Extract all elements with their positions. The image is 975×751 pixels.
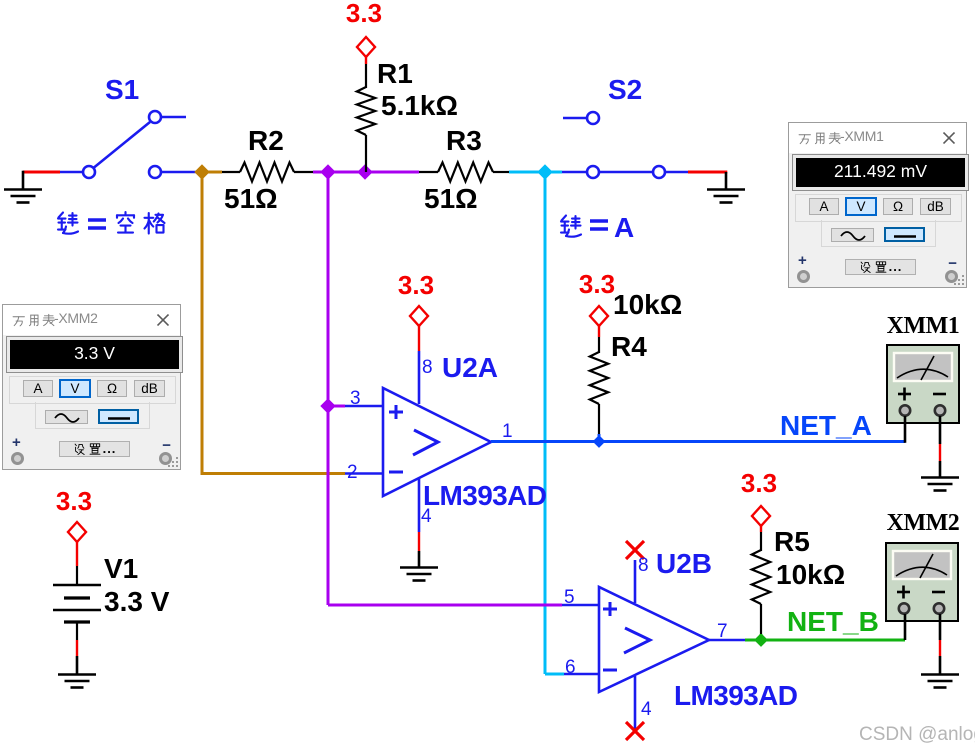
svg-text:5.1kΩ: 5.1kΩ — [381, 90, 458, 121]
svg-text:R3: R3 — [446, 125, 482, 156]
svg-text:8: 8 — [422, 357, 433, 378]
svg-text:V1: V1 — [104, 553, 138, 584]
svg-text:XMM2: XMM2 — [887, 510, 960, 536]
svg-text:NET_A: NET_A — [780, 410, 872, 441]
svg-text:3.3: 3.3 — [56, 486, 92, 516]
svg-text:CSDN @anlog: CSDN @anlog — [859, 724, 975, 745]
svg-text:4: 4 — [641, 699, 652, 720]
svg-text:3.3: 3.3 — [398, 270, 434, 300]
svg-text:R2: R2 — [248, 125, 284, 156]
svg-text:A: A — [614, 212, 634, 243]
svg-text:4: 4 — [421, 506, 432, 527]
svg-text:2: 2 — [347, 462, 358, 483]
svg-text:10kΩ: 10kΩ — [613, 289, 682, 320]
svg-text:U2A: U2A — [442, 352, 498, 383]
svg-text:3: 3 — [350, 388, 361, 409]
svg-text:R1: R1 — [377, 58, 413, 89]
svg-text:LM393AD: LM393AD — [674, 680, 798, 711]
svg-text:6: 6 — [565, 657, 576, 678]
svg-text:U2B: U2B — [656, 548, 712, 579]
svg-text:3.3: 3.3 — [346, 0, 382, 28]
svg-text:S1: S1 — [105, 74, 139, 105]
svg-text:S2: S2 — [608, 74, 642, 105]
svg-text:51Ω: 51Ω — [224, 183, 278, 214]
svg-text:8: 8 — [638, 555, 649, 576]
svg-text:NET_B: NET_B — [787, 606, 879, 637]
svg-text:R5: R5 — [774, 526, 810, 557]
svg-text:3.3: 3.3 — [579, 269, 615, 299]
svg-text:R4: R4 — [611, 331, 647, 362]
svg-text:1: 1 — [502, 421, 513, 442]
svg-text:LM393AD: LM393AD — [423, 480, 547, 511]
svg-text:5: 5 — [564, 587, 575, 608]
svg-text:3.3: 3.3 — [741, 468, 777, 498]
svg-text:10kΩ: 10kΩ — [776, 559, 845, 590]
svg-text:XMM1: XMM1 — [887, 313, 960, 339]
svg-text:51Ω: 51Ω — [424, 183, 478, 214]
svg-text:3.3 V: 3.3 V — [104, 586, 170, 617]
